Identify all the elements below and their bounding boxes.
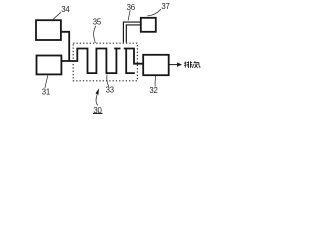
arrow 30 tail bbox=[96, 95, 98, 106]
box 32 bbox=[143, 55, 169, 75]
svg-text:31: 31 bbox=[42, 88, 50, 97]
leader line 36 bbox=[128, 10, 130, 20]
svg-text:33: 33 bbox=[106, 86, 114, 95]
wire from box 34 to junction bbox=[61, 32, 69, 61]
kanji 排 bbox=[184, 61, 192, 68]
exhaust arrow wire bbox=[170, 64, 178, 66]
box 37 bbox=[141, 18, 156, 32]
text 排気 (exhaust), drawn as vector strokes bbox=[184, 61, 200, 68]
arrow 30 head bbox=[96, 88, 100, 95]
svg-text:36: 36 bbox=[127, 3, 135, 12]
svg-text:32: 32 bbox=[149, 86, 157, 95]
pipe 36 inner wall bbox=[126, 25, 141, 43]
leader line 33 bbox=[107, 75, 109, 87]
svg-text:37: 37 bbox=[161, 2, 169, 11]
box 34 bbox=[36, 20, 61, 40]
pipe 36 outer wall bbox=[123, 22, 140, 42]
dotted casing 35 bbox=[73, 43, 137, 81]
serpentine tube 33 (inlet from box 31, square wave) bbox=[62, 49, 121, 74]
leader line 34 bbox=[53, 12, 61, 19]
leader line 35 bbox=[94, 26, 96, 43]
underline of label 30 bbox=[93, 112, 103, 114]
svg-text:34: 34 bbox=[61, 5, 70, 14]
box 31 bbox=[37, 56, 62, 75]
serpentine tube 33 last down-leg and bottom stub bbox=[126, 49, 135, 74]
svg-text:35: 35 bbox=[93, 18, 102, 27]
leader line 37 bbox=[147, 9, 161, 16]
serpentine tube 33 outlet section to box 32 bbox=[114, 49, 143, 64]
leader line 32 bbox=[154, 76, 157, 87]
kanji 気 bbox=[192, 61, 200, 68]
leader line 31 bbox=[45, 75, 48, 88]
exhaust arrowhead bbox=[177, 62, 182, 66]
